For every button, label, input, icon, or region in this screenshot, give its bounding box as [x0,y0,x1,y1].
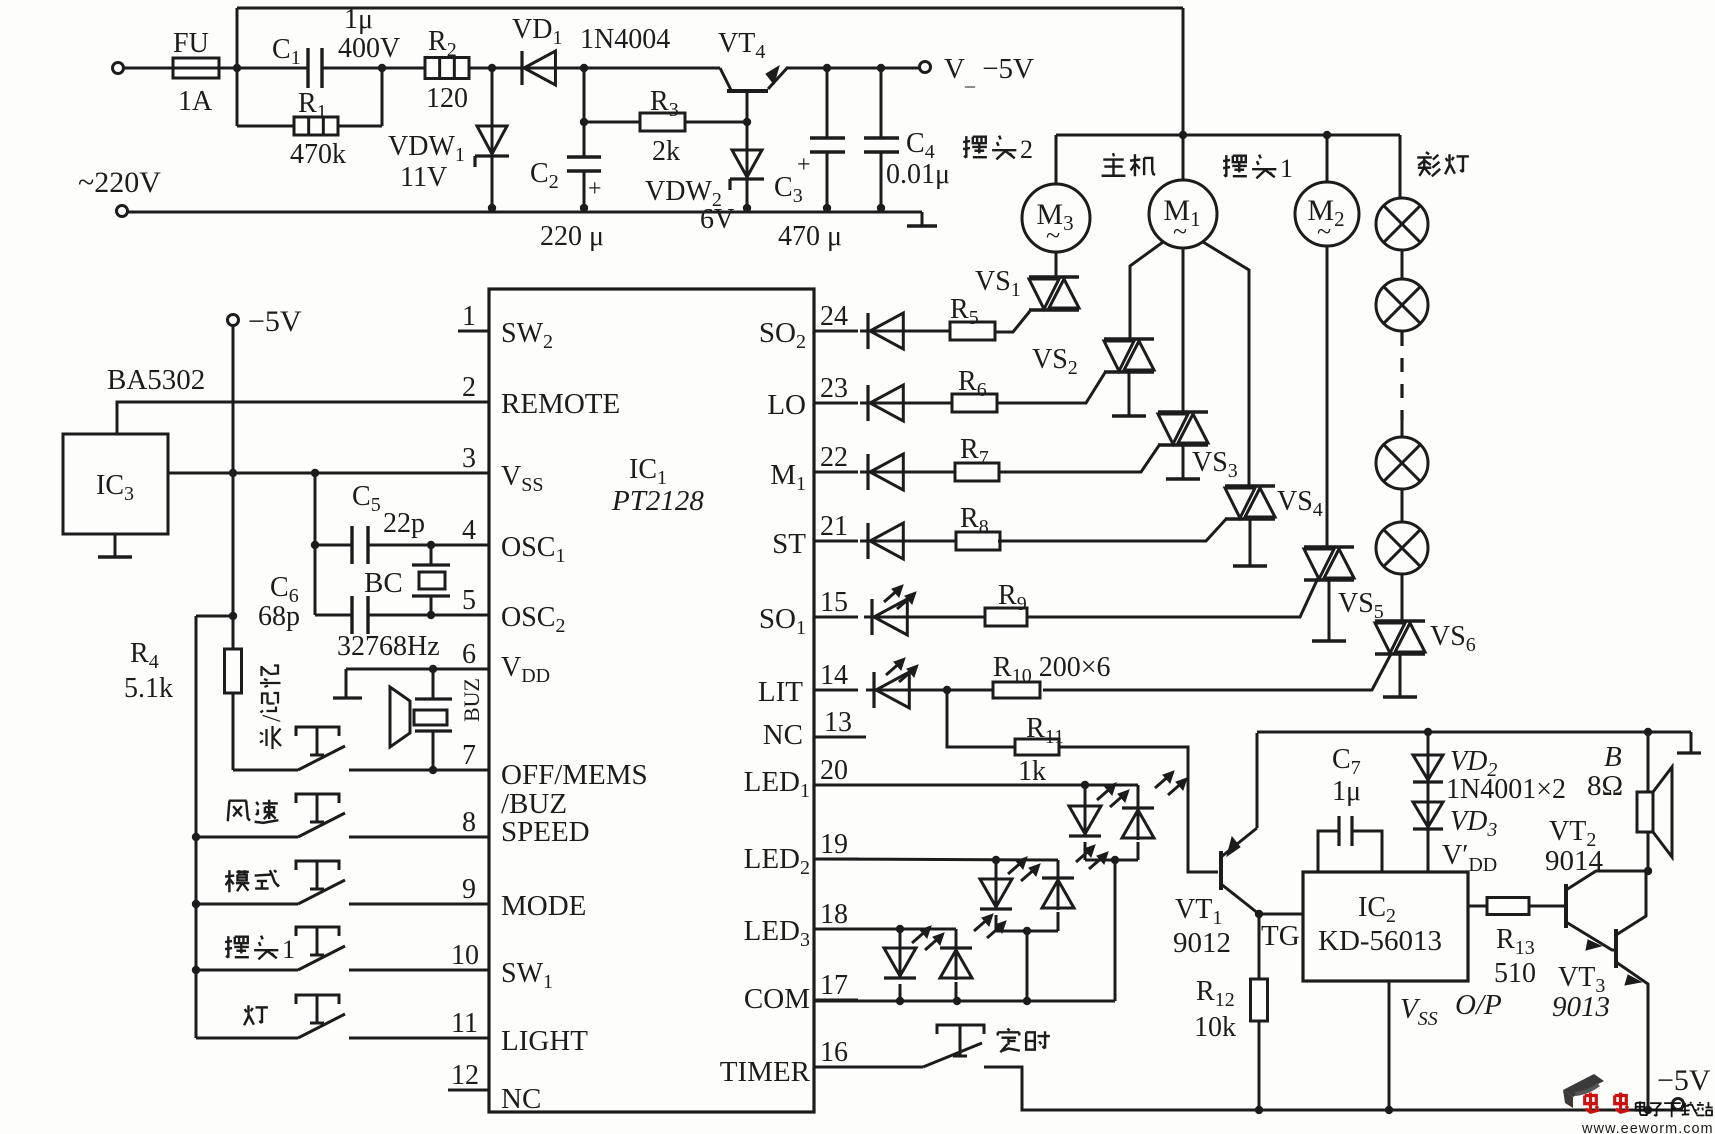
svg-text:18: 18 [820,899,848,930]
pin 10 stub [448,969,489,972]
svg-text:9013: 9013 [1552,991,1610,1023]
svg-text:KD-56013: KD-56013 [1318,925,1442,957]
svg-text:NC: NC [501,1083,541,1115]
svg-text:19: 19 [820,829,848,860]
wire R2 to node C [469,67,520,70]
wire M1 tap LO [1130,242,1163,339]
wire VT4 emitter to -5V terminal [786,67,919,70]
svg-text:ST: ST [772,528,806,560]
svg-text:6: 6 [462,639,476,670]
resistor R2 120 [425,58,469,79]
svg-text:7: 7 [462,740,476,771]
svg-text:10: 10 [451,940,479,971]
svg-text:470 μ: 470 μ [778,221,842,252]
capacitor C3 470μ electrolytic [826,68,829,138]
pin 2 stub [458,401,489,404]
wire M2 feed [1326,135,1329,183]
pin 22 stub [814,471,858,474]
wire lamp dashed [1400,332,1403,420]
junction R11 branch [943,686,951,694]
junction C4 bottom [877,204,885,212]
wire VD1 to node D [556,67,584,70]
svg-text:BA5302: BA5302 [107,364,205,396]
wire VDD row [346,668,489,671]
pin 18 stub [814,928,858,931]
junction VDW1 bottom [488,204,496,212]
label 主机 [1102,153,1126,176]
buzzer BUZ horn [390,687,410,747]
svg-text:LIT: LIT [758,676,803,708]
junction LED1 left [1081,781,1089,789]
junction VT3 emitter rail [1644,1106,1652,1114]
IC U1 PT2128 body [489,289,814,1112]
wire M2 to VS5 [1326,246,1329,547]
svg-text:BC: BC [364,567,403,599]
wire timer switch right [984,1067,1683,1110]
wire -5V rail down [232,326,235,616]
triac VS6 [1375,619,1425,622]
svg-text:2: 2 [462,372,476,403]
svg-text:~: ~ [1173,217,1187,246]
svg-text:21: 21 [820,511,848,542]
diode D22 [860,471,909,474]
pin 8 stub [458,836,489,839]
pin 14 stub [814,689,858,692]
wire mode row right [349,903,489,906]
wire C6 to OSC2 [368,614,489,617]
wire node A down to R1 branch [236,68,239,126]
led group LED3 [899,929,902,948]
speaker B 8ohm [1647,732,1650,792]
junction motor rail M1 [1179,131,1187,139]
capacitor C2 220μ electrolytic [567,155,601,158]
motor M2 [1295,182,1359,246]
svg-text:24: 24 [820,301,848,332]
resistor R9 [985,608,1027,626]
pin 20 stub [814,784,858,787]
junction C3 bottom [823,204,831,212]
wire 24 to R5 [903,330,950,333]
wire light row right [349,1037,489,1040]
svg-text:NC: NC [763,719,803,751]
svg-text:11: 11 [451,1008,478,1039]
wire fuse to node A [219,67,308,70]
svg-text:−5V: −5V [248,305,302,338]
gate wire VS3 [998,444,1160,472]
motor feed rail [1056,134,1400,137]
terminal 220V neutral (bottom) [117,206,128,217]
svg-text:LO: LO [767,389,806,421]
junction VD2 top [1424,728,1432,736]
switch 风速 [298,813,345,837]
wire lamp3-lamp4 [1401,489,1404,522]
resistor R11 1k [1015,739,1059,755]
diode D23 [860,402,909,405]
switch 灯 [298,1014,345,1038]
svg-text:400V: 400V [338,33,400,64]
label 风速 [228,801,250,822]
watermark 电子下载站 [1636,1101,1648,1115]
wire 22 to R7 [903,471,955,474]
pin 4 stub [458,544,489,547]
wire M1 tap M [1182,248,1185,412]
svg-text:11V: 11V [400,162,447,193]
junction R3 branch [580,118,588,126]
svg-text:32768Hz: 32768Hz [337,631,440,662]
led D15 [864,616,913,619]
svg-text:REMOTE: REMOTE [501,388,620,420]
triac VS4 [1225,484,1275,487]
svg-text:120: 120 [426,83,468,114]
svg-text:+: + [797,152,811,178]
resistor R10 [993,682,1040,698]
label 摆头2 [963,136,987,158]
svg-text:1: 1 [282,935,295,964]
motor M3 [1022,184,1090,252]
svg-text:~: ~ [1046,221,1060,250]
terminal -5V supply [228,315,239,326]
transistor VT2 9014 [1564,884,1568,928]
svg-text:TIMER: TIMER [720,1056,811,1088]
svg-text:220 μ: 220 μ [540,221,604,252]
lamp 1 [1376,198,1428,250]
wire sw1 row right [349,969,489,972]
resistor R1 470k [294,117,338,135]
triac VS2 [1104,337,1154,340]
svg-text:V_ −5V: V_ −5V [944,53,1034,90]
pin 13 stub [814,736,866,739]
triac VS3 [1158,410,1208,413]
wire VSS IC3 to IC1 [168,472,489,475]
capacitor C1 [306,48,309,88]
wire COM row [814,1000,1115,1003]
capacitor C5 22p [350,526,353,564]
junction LED2 COM [1023,997,1031,1005]
label 灯 [244,1005,268,1025]
junction buzzer top [429,665,437,673]
junction C3 top [823,64,831,72]
junction key rail 8 [192,833,200,841]
junction node A [233,64,241,72]
wire VS4 MT1 stub [1249,519,1252,565]
wire 23 to R6 [903,402,952,405]
resistor R6 [952,394,997,412]
svg-text:1N4004: 1N4004 [580,24,670,55]
resistor R12 10k [1258,914,1261,979]
wire node D to VT4 collector [584,67,720,70]
diode VD2 [1427,732,1430,783]
diode VD1 1N4004 [469,67,584,70]
transistor VT3 9013 [1614,929,1618,968]
svg-text:1A: 1A [178,86,213,117]
capacitor C4 0.01μ [880,68,883,138]
svg-text:~: ~ [1317,217,1331,246]
wire lamp2-lamp3 [1401,420,1404,437]
wire VT1 emitter top rail [1257,731,1691,734]
label 彩灯 [1417,152,1440,176]
wire VS2 MT1 stub [1128,372,1131,415]
triac VS5 [1304,545,1354,548]
watermark 虫虫 [1585,1093,1600,1113]
junction crystal top [427,541,435,549]
svg-text:www.eeworm.com: www.eeworm.com [1581,1121,1714,1134]
svg-text:1: 1 [462,301,476,332]
diode VD3 [1427,783,1430,830]
wire M1 feed [1182,135,1185,181]
label 摆头1 [1223,155,1247,177]
gate wire VS2 [996,371,1106,403]
wire sw1 row left [196,969,298,972]
svg-text:+: + [588,176,602,202]
junction key rail branch [229,612,237,620]
svg-text:B: B [1604,741,1622,773]
capacitor C7 1μ [1318,831,1339,872]
svg-text:MODE: MODE [501,890,586,922]
resistor R5 [950,322,995,340]
junction node B [378,64,386,72]
svg-text:16: 16 [820,1037,848,1068]
pin 5 stub [458,614,489,617]
svg-text:9014: 9014 [1545,845,1604,877]
wire node D down [583,68,586,156]
svg-text:TG: TG [1261,920,1300,952]
buzzer frame stub [345,669,348,697]
svg-text:LIGHT: LIGHT [501,1025,588,1057]
junction motor rail M2 [1323,131,1331,139]
wire R1 branch left [237,125,294,128]
crystal BC 32768Hz [430,545,433,565]
junction LED3 left [896,925,904,933]
wire riser node A to top rail [236,8,239,68]
led D14 [866,689,915,692]
svg-text:8: 8 [462,807,476,838]
wire VSS branch down [314,473,317,615]
junction C5 row [311,541,319,549]
wire pin18 row [814,928,956,931]
svg-text:FU: FU [173,28,209,59]
pin 15 stub [814,616,858,619]
wire to R3 [584,121,640,124]
svg-text:15: 15 [820,587,848,618]
junction IC2 VSS rail [1385,1106,1393,1114]
wire M3 feed [1055,135,1058,185]
terminal -5V bottom [1673,1099,1684,1110]
junction VT4 base node [743,118,751,126]
wire R1 to riser [338,125,382,128]
pin 9 stub [458,903,489,906]
wire M3 to VS1 [1055,252,1058,277]
wire top rail drop to motor rail [1182,8,1185,135]
pin 21 stub [814,540,858,543]
junction key rail 10 [192,966,200,974]
buzzer piezo [432,669,435,699]
junction VDW2 bottom [743,204,751,212]
svg-text:1N4001×2: 1N4001×2 [1446,774,1566,805]
wire VS6 MT1 stub [1399,654,1402,696]
svg-text:0.01μ: 0.01μ [886,159,950,190]
IC U2 KD-56013 body [1303,872,1468,981]
pin 11 stub [448,1037,489,1040]
label 定时 [998,1029,1020,1053]
switch 模式 [298,880,345,904]
svg-text:14: 14 [820,660,848,691]
svg-text:PT2128: PT2128 [611,485,704,517]
wire 15 to R9 [907,616,985,619]
led group LED1 [1084,785,1087,806]
svg-text:1μ: 1μ [1332,776,1361,807]
wire IC2 OP to R13 [1468,905,1487,908]
wire branch to key rail [196,615,233,618]
resistor R3 2k [640,113,685,131]
svg-text:12: 12 [451,1060,479,1091]
ground chassis stub [921,212,924,225]
junction R12 bottom [1255,1106,1263,1114]
svg-text:4: 4 [462,515,476,546]
resistor R8 [956,532,1000,550]
watermark logo cap [1563,1074,1604,1108]
key rail down [195,616,198,1038]
wire light row left [196,1037,298,1040]
wire lamp1-lamp2 [1401,250,1404,279]
wire TG to IC2 [1259,913,1303,916]
wire 14 to R10 [909,689,993,692]
wire mode row left [196,903,298,906]
svg-text:/: / [257,714,286,722]
wire 220V bottom rail [128,211,922,214]
lamp 2 [1376,279,1428,331]
fuse FU 1A [173,58,219,78]
wire LED1 to COM [1114,860,1117,1001]
pin 16 stub [814,1066,858,1069]
wire pin19 row [814,859,1058,860]
wire REMOTE to IC3 [117,402,489,434]
pin 23 stub [814,402,858,405]
switch 定时 TIMER [923,1043,982,1067]
gate wire VS4 [998,518,1227,541]
IC U3 BA5302 body [63,434,168,534]
wire IC2 VSS to rail [1388,981,1391,1110]
svg-text:17: 17 [820,970,848,1001]
motor M1 [1149,180,1217,248]
wire M1 tap ST [1203,242,1249,486]
wire 21 to R8 [903,540,956,543]
terminal V- -5V [920,62,931,73]
wire LED2 to COM [1026,931,1029,1001]
lamp 4 [1376,522,1428,574]
junction speaker top [1644,728,1652,736]
triac VS1 [1029,275,1079,278]
wire C6 left [315,614,352,617]
zener VDW2 6V [746,122,749,179]
junction crystal bottom [427,611,435,619]
svg-text:9012: 9012 [1173,927,1231,959]
pin 12 stub [448,1089,489,1092]
label 模式 [225,870,249,892]
wire R3 to VT4 base node [685,121,747,124]
junction LED2 bottom [1023,927,1031,935]
svg-text:BUZ: BUZ [459,678,484,722]
svg-text:2k: 2k [652,136,680,167]
wire R11 to VT1 base [1059,747,1218,872]
pin 17 stub [814,999,858,1002]
capacitor C6 68p [350,596,353,634]
terminal 220V line input (top) [113,63,124,74]
wire key1 row right [349,769,489,772]
svg-text:COM: COM [744,983,810,1015]
resistor R13 510 [1487,898,1529,915]
zener VDW1 11V [491,68,494,156]
svg-text:20: 20 [820,755,848,786]
junction LED1 bottom [1111,856,1119,864]
svg-text:−5V: −5V [1657,1064,1711,1097]
svg-text:1μ: 1μ [344,4,373,35]
wire VS3 MT1 stub [1182,445,1185,478]
junction C2 bottom [580,204,588,212]
wire lamp4 to VS6 [1401,574,1404,621]
wire R13 to VT2 [1529,905,1564,908]
svg-text:R10 200×6: R10 200×6 [993,652,1110,687]
wire pin20 row [814,784,1138,787]
junction C4 top [877,64,885,72]
switch 关/记忆 [298,746,345,770]
wire speed row right [349,836,489,839]
svg-text:470k: 470k [290,139,346,170]
resistor R4 5.1k [232,616,235,649]
svg-text:8Ω: 8Ω [1587,770,1623,802]
wire lamp feed [1399,135,1402,198]
pin 3 stub [458,472,489,475]
svg-text:510: 510 [1494,958,1536,989]
svg-text:1k: 1k [1018,756,1046,787]
svg-text:22: 22 [820,442,848,473]
resistor R7 [955,463,999,481]
junction -5V VSS [229,469,237,477]
wire top rail right stub [1690,732,1693,752]
pin 6 stub [458,668,489,671]
gate wire VS1 [995,311,1030,332]
pin 1 stub [458,330,489,333]
led group LED2 [995,860,998,879]
gate wire VS6 [1043,652,1392,690]
wire C1 to node B [322,67,382,70]
svg-text:23: 23 [820,373,848,404]
svg-text:13: 13 [824,707,852,738]
svg-text:10k: 10k [1194,1012,1236,1043]
wire riser R1 to node B [381,68,384,126]
junction LED3 right COM [953,997,961,1005]
svg-text:22p: 22p [383,508,425,539]
label 摆头1 switch [225,936,249,958]
wire node B to R2 [382,67,425,70]
junction VT1 collector TG [1255,910,1263,918]
wire VS5 MT1 stub [1328,580,1331,640]
wire pin16 row [814,1066,923,1069]
wire C5 left [315,544,352,547]
svg-text:2: 2 [1020,135,1033,164]
junction node C [488,64,496,72]
svg-text:5: 5 [462,585,476,616]
wire input to fuse [124,67,173,70]
wire C5 to OSC1 [368,544,489,547]
pin 24 stub [814,330,858,333]
svg-text:9: 9 [462,874,476,905]
svg-text:68p: 68p [258,601,300,632]
top rail wire [237,7,1183,10]
svg-text:SPEED: SPEED [501,816,590,848]
wire speed row left [196,836,298,839]
junction LED3 left COM [896,997,904,1005]
label 关/记忆 vertical [257,714,286,749]
